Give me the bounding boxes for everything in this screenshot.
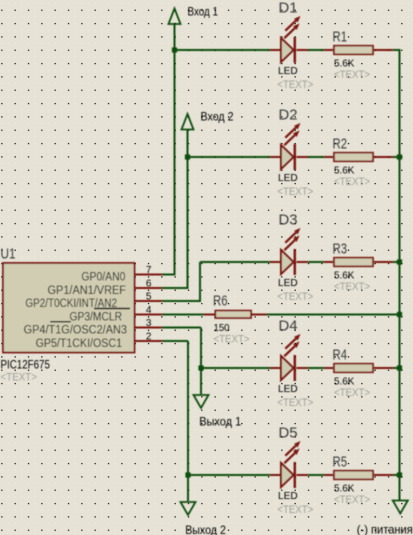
resistor R2 xyxy=(324,153,393,162)
junction rail y=157 xyxy=(397,154,402,159)
underscore bar before GP3 xyxy=(50,321,70,323)
terminal (-) supply arrow xyxy=(393,501,408,514)
svg-text:D2: D2 xyxy=(279,107,298,124)
svg-text:5.6K: 5.6K xyxy=(334,483,354,494)
svg-text:LED: LED xyxy=(278,173,298,184)
LED D3 xyxy=(270,228,308,275)
pin 2 stub xyxy=(135,340,162,342)
svg-text:(-) питания: (-) питания xyxy=(357,523,413,535)
svg-text:Выход 1: Выход 1 xyxy=(199,414,241,428)
svg-text:5.6K: 5.6K xyxy=(334,165,354,176)
LED D2 xyxy=(270,123,308,170)
net R6 to rail xyxy=(267,314,401,316)
R6 right pin xyxy=(251,314,267,316)
svg-text:LED: LED xyxy=(278,66,298,77)
svg-text:D5: D5 xyxy=(279,425,298,442)
wire LED to R xyxy=(306,49,326,51)
svg-text:D4: D4 xyxy=(279,318,298,335)
terminal Vhod2 arrow xyxy=(182,114,194,130)
svg-text:Вход 2: Вход 2 xyxy=(201,109,234,123)
resistor R5 xyxy=(324,471,393,480)
svg-text:GP5/T1CKI/OSC1: GP5/T1CKI/OSC1 xyxy=(36,336,123,350)
svg-text:LED: LED xyxy=(278,491,298,502)
resistor R4 xyxy=(324,364,393,373)
svg-text:LED: LED xyxy=(278,384,298,395)
svg-text:GP3/MCLR: GP3/MCLR xyxy=(70,309,123,323)
svg-text:5: 5 xyxy=(146,292,152,303)
wire LED to R xyxy=(306,156,326,158)
svg-text:R6: R6 xyxy=(213,293,228,310)
svg-text:R5: R5 xyxy=(333,453,348,470)
pin 5 stub xyxy=(135,300,162,302)
svg-text:5.6K: 5.6K xyxy=(334,270,354,281)
svg-text:GP2/T0CKI/INT/AN2: GP2/T0CKI/INT/AN2 xyxy=(25,296,117,310)
LED D5 xyxy=(270,441,308,488)
svg-text:7: 7 xyxy=(146,265,152,276)
terminal Vhod1 arrow xyxy=(169,9,181,25)
resistor R1 xyxy=(324,46,393,55)
svg-text:3: 3 xyxy=(146,318,152,329)
pin 3 stub xyxy=(135,327,162,329)
svg-text:5.6K: 5.6K xyxy=(334,376,354,387)
junction input1/D1 xyxy=(172,47,177,52)
junction rail y=368 xyxy=(397,365,402,370)
resistor R3 xyxy=(324,258,393,267)
terminal Vyhod1 arrow xyxy=(194,395,209,408)
net input2: terminal to pin6 and D2 xyxy=(187,129,189,288)
net pin4 to R6 xyxy=(162,314,204,316)
svg-text:GP1/AN1/VREF: GP1/AN1/VREF xyxy=(48,283,127,297)
net pin5 to D3 xyxy=(162,300,200,302)
svg-text:<TEXT>: <TEXT> xyxy=(277,186,313,198)
svg-text:6: 6 xyxy=(146,279,152,290)
overbar AN2 xyxy=(94,308,130,310)
svg-text:Вход 1: Вход 1 xyxy=(188,4,219,18)
svg-text:2: 2 xyxy=(146,332,152,343)
svg-text:<TEXT>: <TEXT> xyxy=(277,504,313,516)
svg-text:LED: LED xyxy=(278,278,298,289)
pin 7 stub xyxy=(135,274,162,276)
svg-text:D1: D1 xyxy=(279,0,298,17)
svg-text:<TEXT>: <TEXT> xyxy=(1,372,38,384)
junction rail y=262 xyxy=(397,259,402,264)
svg-text:PIC12F675: PIC12F675 xyxy=(1,357,51,371)
svg-text:<TEXT>: <TEXT> xyxy=(277,291,313,303)
svg-text:R4: R4 xyxy=(333,346,348,363)
junction input2/D2 xyxy=(185,154,190,159)
net pin2 to D5 and output2 xyxy=(162,340,188,342)
svg-text:<TEXT>: <TEXT> xyxy=(334,387,370,399)
right rail (negative supply) xyxy=(399,49,401,500)
wire LED to R xyxy=(306,367,326,369)
pin 6 stub xyxy=(135,287,162,289)
junction rail y=475 xyxy=(397,472,402,477)
svg-text:<TEXT>: <TEXT> xyxy=(334,494,370,506)
svg-text:GP0/AN0: GP0/AN0 xyxy=(81,269,125,283)
svg-text:<TEXT>: <TEXT> xyxy=(277,397,313,409)
resistor R6 xyxy=(215,311,251,318)
terminal Vyhod2 arrow xyxy=(181,502,196,515)
svg-text:5.6K: 5.6K xyxy=(334,58,354,69)
svg-text:<TEXT>: <TEXT> xyxy=(277,79,313,91)
svg-text:U1: U1 xyxy=(1,245,16,262)
svg-text:Выход 2: Выход 2 xyxy=(185,523,226,535)
junction rail y=314.5 xyxy=(397,312,402,317)
pin 4 stub xyxy=(135,314,162,316)
svg-text:4: 4 xyxy=(146,305,152,316)
junction pin3/D4 xyxy=(198,365,203,370)
svg-text:<TEXT>: <TEXT> xyxy=(334,176,370,188)
svg-text:R1: R1 xyxy=(333,28,348,45)
svg-text:R2: R2 xyxy=(333,135,348,152)
junction pin2/D5 xyxy=(185,472,190,477)
IC U1 PIC12F675 xyxy=(3,263,135,353)
wire LED to R xyxy=(306,261,326,263)
wire LED to R xyxy=(306,474,326,476)
svg-text:<TEXT>: <TEXT> xyxy=(214,333,250,345)
LED D4 xyxy=(270,334,308,381)
svg-text:GP4/T1G/OSC2/AN3: GP4/T1G/OSC2/AN3 xyxy=(24,322,128,336)
net input1: terminal to pin7 and D1 xyxy=(174,23,176,275)
svg-text:D3: D3 xyxy=(279,212,298,229)
svg-text:<TEXT>: <TEXT> xyxy=(334,281,370,293)
svg-text:R3: R3 xyxy=(333,240,348,257)
LED D1 xyxy=(270,16,308,63)
svg-text:<TEXT>: <TEXT> xyxy=(334,69,370,81)
R6 left pin xyxy=(204,314,216,316)
svg-text:150: 150 xyxy=(214,323,230,334)
net pin3 to D4 and output1 xyxy=(162,327,201,329)
